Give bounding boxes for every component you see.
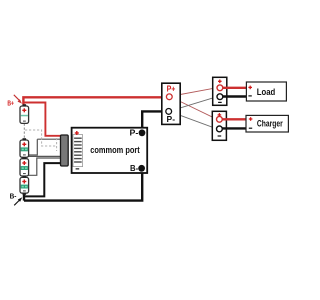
svg-text:Load: Load xyxy=(257,87,276,97)
svg-text:P-: P- xyxy=(130,128,139,138)
svg-text:B-: B- xyxy=(10,191,17,200)
svg-text:B-: B- xyxy=(130,163,138,173)
svg-text:commom port: commom port xyxy=(90,145,140,156)
svg-text:Charger: Charger xyxy=(257,119,283,129)
svg-text:P-: P- xyxy=(167,114,176,124)
svg-text:B+: B+ xyxy=(7,98,14,107)
svg-text:P+: P+ xyxy=(167,83,176,93)
